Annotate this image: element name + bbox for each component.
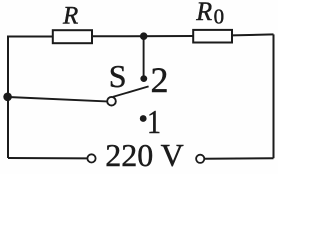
wire from top rail to contact 2 bbox=[143, 36, 145, 76]
switch S pivot circle bbox=[107, 97, 116, 106]
wire right vertical bbox=[273, 34, 275, 158]
switch S blade bbox=[113, 86, 149, 97]
wire left vertical bbox=[7, 36, 9, 159]
contact dot 1 bbox=[140, 115, 147, 122]
terminal circle right (220V source) bbox=[196, 155, 204, 163]
node junction dot on top rail bbox=[140, 32, 148, 40]
wire top-right segment bbox=[232, 34, 274, 35]
svg-text:220 V: 220 V bbox=[105, 137, 184, 173]
svg-text:S: S bbox=[109, 58, 127, 94]
svg-text:1: 1 bbox=[147, 104, 161, 141]
svg-text:R: R bbox=[195, 0, 212, 26]
wire bottom-right segment bbox=[204, 157, 273, 160]
node junction dot on left wire bbox=[3, 93, 12, 102]
wire top middle segment bbox=[92, 35, 194, 37]
resistor R0 bbox=[193, 30, 232, 43]
wire top-left segment bbox=[8, 36, 53, 38]
wire to switch pivot bbox=[8, 97, 107, 101]
svg-text:2: 2 bbox=[151, 60, 169, 100]
svg-text:R: R bbox=[62, 3, 78, 30]
contact dot 2 bbox=[140, 75, 147, 82]
svg-text:0: 0 bbox=[214, 4, 225, 28]
resistor R bbox=[53, 30, 92, 43]
wire bottom-left segment bbox=[8, 157, 87, 159]
terminal circle left (220V source) bbox=[87, 154, 95, 162]
